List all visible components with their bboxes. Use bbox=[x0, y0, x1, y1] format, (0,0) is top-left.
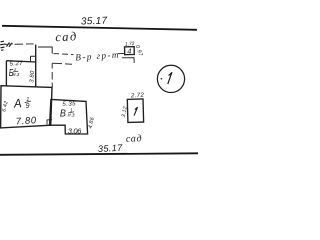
wing wall below box 4 bbox=[122, 58, 134, 63]
svg-text:А: А bbox=[13, 96, 22, 111]
svg-text:35.17: 35.17 bbox=[98, 143, 124, 154]
svg-text:5.35: 5.35 bbox=[62, 100, 76, 107]
shed Б outline bbox=[6, 45, 35, 87]
fence step down bbox=[51, 47, 53, 54]
svg-text:2.72: 2.72 bbox=[130, 92, 145, 100]
outbuilding 1 square bbox=[127, 99, 143, 123]
well circle 1 bbox=[157, 65, 184, 92]
north boundary line bbox=[2, 26, 197, 30]
lower fence vertical dashed bbox=[51, 63, 53, 87]
svg-text:7.80: 7.80 bbox=[15, 115, 37, 127]
svg-text:0.97: 0.97 bbox=[134, 44, 144, 57]
well dot bbox=[161, 78, 163, 80]
annex step on top of shed Б bbox=[31, 56, 37, 61]
south boundary line bbox=[0, 153, 198, 155]
fence dash before box 4 bbox=[118, 53, 124, 55]
svg-text:В: В bbox=[60, 108, 66, 119]
left margin scribble bbox=[0, 41, 12, 50]
svg-text:5.27: 5.27 bbox=[9, 60, 23, 68]
outbuilding 4 box bbox=[125, 47, 135, 55]
svg-text:сад: сад bbox=[55, 29, 78, 44]
svg-text:4: 4 bbox=[127, 47, 131, 56]
svg-text:35.17: 35.17 bbox=[81, 16, 108, 28]
svg-text:9: 9 bbox=[26, 103, 30, 110]
svg-text:н.з: н.з bbox=[13, 72, 20, 78]
svg-text:3.80: 3.80 bbox=[29, 70, 36, 83]
lower fence corner bbox=[52, 63, 72, 64]
svg-text:н.з: н.з bbox=[68, 112, 75, 118]
fence dashes to gate label bbox=[54, 54, 74, 55]
fence solid segment to step bbox=[38, 46, 52, 48]
svg-text:1.72: 1.72 bbox=[125, 41, 135, 48]
label 1 in circle bbox=[168, 73, 172, 84]
label 1 in square bbox=[134, 107, 137, 115]
shed В outline with notch bbox=[50, 99, 88, 134]
svg-text:6.42: 6.42 bbox=[1, 100, 9, 112]
house А outline bbox=[1, 86, 52, 128]
svg-text:3.06: 3.06 bbox=[68, 126, 82, 135]
fence dashes upper-left bbox=[15, 43, 34, 45]
svg-text:4.86: 4.86 bbox=[88, 116, 96, 129]
step at А bottom-right bbox=[47, 120, 52, 125]
svg-text:В-р гр-т: В-р гр-т bbox=[75, 49, 120, 62]
svg-text:сад: сад bbox=[126, 133, 143, 145]
